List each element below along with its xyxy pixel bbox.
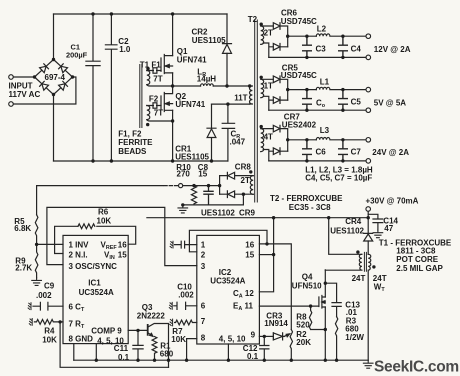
svg-text:15: 15 xyxy=(118,250,127,259)
svg-text:.002: .002 xyxy=(36,291,52,300)
svg-text:12V @ 2A: 12V @ 2A xyxy=(374,45,411,54)
svg-text:1 INV: 1 INV xyxy=(69,240,90,249)
svg-text:L3: L3 xyxy=(320,126,330,135)
svg-text:EC35 - 3C8: EC35 - 3C8 xyxy=(289,203,331,212)
svg-text:10K: 10K xyxy=(171,335,186,344)
svg-text:L2: L2 xyxy=(317,25,327,34)
svg-text:7 RT: 7 RT xyxy=(69,319,85,330)
svg-text:F1, F2: F1, F2 xyxy=(118,129,142,138)
svg-text:CR6: CR6 xyxy=(281,8,298,17)
svg-text:UFN510: UFN510 xyxy=(292,282,322,291)
svg-text:FERRITE: FERRITE xyxy=(118,138,153,147)
svg-text:Q4: Q4 xyxy=(302,272,313,281)
svg-text:697-4: 697-4 xyxy=(45,73,66,82)
svg-text:20K: 20K xyxy=(296,338,311,347)
svg-text:C6: C6 xyxy=(316,148,327,157)
svg-text:14µH: 14µH xyxy=(197,74,217,83)
svg-text:16: 16 xyxy=(118,240,127,249)
svg-text:15: 15 xyxy=(198,170,207,179)
svg-text:C3: C3 xyxy=(316,45,327,54)
svg-text:680: 680 xyxy=(160,349,174,358)
svg-text:3 OSC/SYNC: 3 OSC/SYNC xyxy=(69,262,118,271)
svg-text:CA 12: CA 12 xyxy=(233,289,254,300)
svg-text:VREF: VREF xyxy=(101,240,118,251)
svg-text:2.5 MIL GAP: 2.5 MIL GAP xyxy=(396,264,443,273)
svg-text:.002: .002 xyxy=(178,291,194,300)
svg-text:1N914: 1N914 xyxy=(264,319,288,328)
svg-text:2N2222: 2N2222 xyxy=(137,312,166,321)
svg-text:2.7K: 2.7K xyxy=(15,263,32,272)
svg-text:16: 16 xyxy=(245,241,254,250)
svg-text:.047: .047 xyxy=(230,137,246,146)
svg-text:0.1: 0.1 xyxy=(247,352,259,361)
svg-text:1T: 1T xyxy=(264,82,273,91)
svg-text:UFN741: UFN741 xyxy=(177,55,207,64)
svg-text:BEADS: BEADS xyxy=(118,147,147,156)
svg-text:C5: C5 xyxy=(351,98,362,107)
svg-text:UES1102: UES1102 xyxy=(330,227,364,236)
svg-text:24V @ 2A: 24V @ 2A xyxy=(372,148,409,157)
svg-text:2T: 2T xyxy=(264,28,273,37)
svg-text:WT: WT xyxy=(374,282,386,293)
svg-text:UES1105: UES1105 xyxy=(175,152,209,161)
svg-text:3: 3 xyxy=(201,262,206,271)
svg-text:EA 11: EA 11 xyxy=(233,302,253,313)
svg-text:15: 15 xyxy=(245,251,254,260)
svg-text:6.8K: 6.8K xyxy=(14,224,31,233)
svg-text:USD745C: USD745C xyxy=(281,17,317,26)
svg-text:6: 6 xyxy=(201,302,206,311)
svg-text:CR4: CR4 xyxy=(345,217,362,226)
svg-text:L1: L1 xyxy=(320,77,330,86)
svg-text:1811 - 3C8: 1811 - 3C8 xyxy=(396,246,436,255)
svg-text:POT CORE: POT CORE xyxy=(396,255,438,264)
svg-text:47: 47 xyxy=(384,224,393,233)
svg-text:UFN741: UFN741 xyxy=(175,100,205,109)
svg-text:4T: 4T xyxy=(264,133,273,142)
svg-text:4, 5, 10: 4, 5, 10 xyxy=(97,336,124,345)
svg-text:USD745C: USD745C xyxy=(281,71,317,80)
svg-text:IC1: IC1 xyxy=(88,278,101,287)
svg-text:CR9: CR9 xyxy=(239,209,256,218)
svg-text:UC3524A: UC3524A xyxy=(210,277,245,286)
svg-text:+30V @ 70mA: +30V @ 70mA xyxy=(366,197,419,206)
svg-text:1.0: 1.0 xyxy=(119,45,131,54)
svg-text:C4: C4 xyxy=(351,45,362,54)
svg-text:24T: 24T xyxy=(352,274,366,283)
svg-text:9: 9 xyxy=(251,331,256,340)
svg-text:10K: 10K xyxy=(97,216,112,225)
svg-text:1/2W: 1/2W xyxy=(345,333,364,342)
svg-text:CR8: CR8 xyxy=(235,163,252,172)
svg-text:T2: T2 xyxy=(248,15,258,24)
svg-text:6 CT: 6 CT xyxy=(69,303,85,314)
svg-text:200µF: 200µF xyxy=(66,50,88,59)
svg-text:680: 680 xyxy=(345,324,359,333)
svg-text:520: 520 xyxy=(296,320,310,329)
svg-text:1: 1 xyxy=(201,241,206,250)
svg-text:R4: R4 xyxy=(44,327,55,336)
svg-text:11T: 11T xyxy=(234,93,247,102)
svg-text:COMP 9: COMP 9 xyxy=(91,327,122,336)
svg-text:2: 2 xyxy=(201,251,206,260)
svg-text:10K: 10K xyxy=(42,336,57,345)
svg-text:7: 7 xyxy=(201,317,206,326)
svg-text:T2 - FERROXCUBE: T2 - FERROXCUBE xyxy=(270,194,343,203)
svg-text:2 N.I.: 2 N.I. xyxy=(69,250,88,259)
svg-text:7T: 7T xyxy=(153,75,162,84)
svg-text:Co: Co xyxy=(316,98,326,109)
svg-text:5V @ 5A: 5V @ 5A xyxy=(374,99,406,108)
svg-text:2T: 2T xyxy=(241,176,250,185)
svg-text:7T: 7T xyxy=(154,109,163,118)
svg-text:0.1: 0.1 xyxy=(118,353,130,362)
svg-text:C9: C9 xyxy=(44,281,55,290)
svg-text:SeekIC.com: SeekIC.com xyxy=(374,358,459,375)
svg-text:8 GND: 8 GND xyxy=(69,334,94,343)
svg-text:117V AC: 117V AC xyxy=(9,90,41,99)
svg-text:4, 5, 10: 4, 5, 10 xyxy=(219,335,246,344)
svg-text:F2: F2 xyxy=(149,95,159,104)
svg-text:8: 8 xyxy=(201,334,206,343)
svg-text:270: 270 xyxy=(177,170,191,179)
svg-text:UES1102: UES1102 xyxy=(201,209,235,218)
svg-text:UES1105: UES1105 xyxy=(192,36,226,45)
svg-text:VIN: VIN xyxy=(104,250,115,261)
svg-text:T1 F1: T1 F1 xyxy=(140,60,161,69)
svg-text:C4, C5, C7 = 10µF: C4, C5, C7 = 10µF xyxy=(305,174,372,183)
svg-text:UC3524A: UC3524A xyxy=(79,288,114,297)
svg-text:UES2402: UES2402 xyxy=(282,121,317,130)
svg-text:C7: C7 xyxy=(351,148,362,157)
